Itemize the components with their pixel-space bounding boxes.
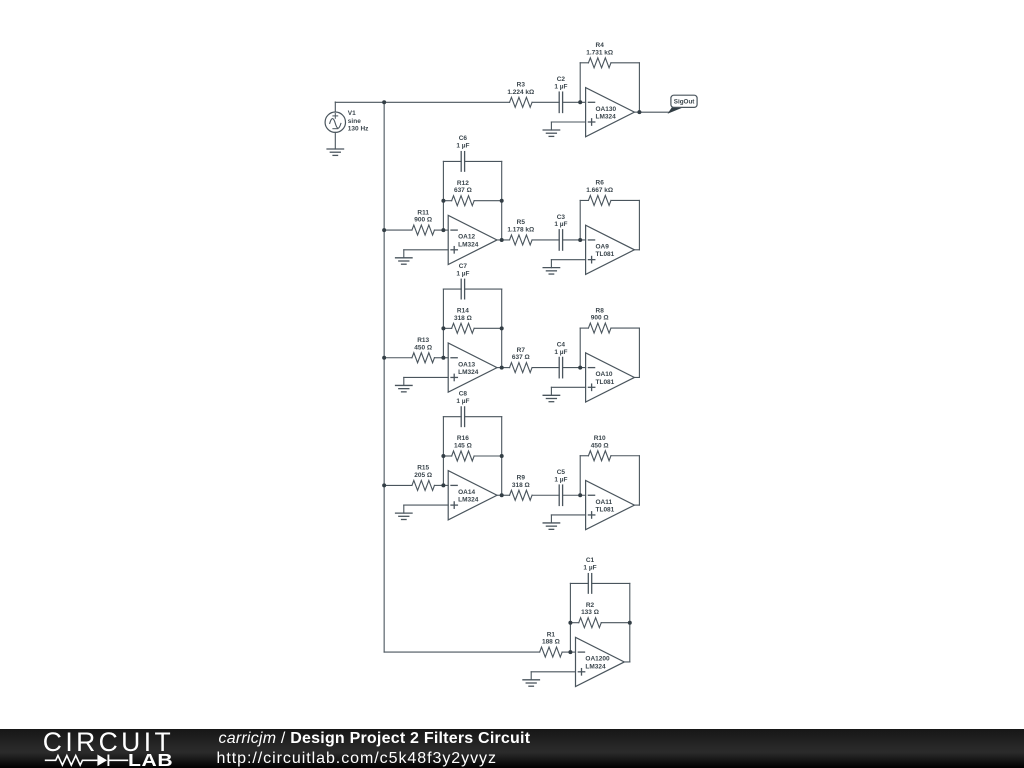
svg-text:R10: R10 <box>594 435 606 442</box>
svg-text:1.667 kΩ: 1.667 kΩ <box>586 187 613 194</box>
svg-text:637 Ω: 637 Ω <box>454 187 472 194</box>
svg-text:R2: R2 <box>586 602 595 609</box>
svg-text:OA130: OA130 <box>596 106 617 113</box>
svg-text:C2: C2 <box>557 76 566 83</box>
svg-text:R6: R6 <box>596 180 605 187</box>
svg-text:C3: C3 <box>557 214 566 221</box>
svg-text:R13: R13 <box>417 337 429 344</box>
svg-text:TL081: TL081 <box>596 251 615 258</box>
svg-text:900 Ω: 900 Ω <box>414 217 432 224</box>
svg-text:1 µF: 1 µF <box>583 565 596 572</box>
svg-text:R12: R12 <box>457 180 469 187</box>
svg-text:318 Ω: 318 Ω <box>512 482 530 489</box>
svg-text:C4: C4 <box>557 341 566 348</box>
svg-text:1 µF: 1 µF <box>554 84 567 91</box>
svg-text:1 µF: 1 µF <box>456 398 469 405</box>
svg-text:1 µF: 1 µF <box>554 221 567 228</box>
svg-text:R16: R16 <box>457 435 469 442</box>
svg-text:V1: V1 <box>348 110 356 117</box>
svg-text:OA10: OA10 <box>596 371 613 378</box>
svg-text:205 Ω: 205 Ω <box>414 472 432 479</box>
svg-text:C8: C8 <box>459 391 468 398</box>
svg-text:TL081: TL081 <box>596 379 615 386</box>
svg-text:R4: R4 <box>596 42 605 49</box>
svg-text:R11: R11 <box>417 209 429 216</box>
svg-text:R5: R5 <box>517 219 526 226</box>
svg-text:LM324: LM324 <box>585 663 606 670</box>
svg-text:R14: R14 <box>457 308 469 315</box>
svg-text:OA1200: OA1200 <box>585 656 610 663</box>
svg-text:OA14: OA14 <box>458 489 475 496</box>
svg-text:R8: R8 <box>596 307 605 314</box>
svg-text:133 Ω: 133 Ω <box>581 609 599 616</box>
svg-text:145 Ω: 145 Ω <box>454 443 472 450</box>
svg-text:188 Ω: 188 Ω <box>542 639 560 646</box>
svg-text:LM324: LM324 <box>458 497 479 504</box>
svg-text:TL081: TL081 <box>596 507 615 514</box>
svg-text:C7: C7 <box>459 263 468 270</box>
svg-text:1.731 kΩ: 1.731 kΩ <box>586 49 613 56</box>
svg-text:R3: R3 <box>517 82 526 89</box>
svg-text:1 µF: 1 µF <box>456 143 469 150</box>
svg-text:R1: R1 <box>547 631 556 638</box>
svg-text:OA13: OA13 <box>458 361 475 368</box>
svg-text:450 Ω: 450 Ω <box>414 344 432 351</box>
svg-text:C5: C5 <box>557 469 566 476</box>
svg-text:R7: R7 <box>517 347 526 354</box>
svg-text:1 µF: 1 µF <box>554 476 567 483</box>
svg-text:OA9: OA9 <box>596 244 610 251</box>
svg-text:1 µF: 1 µF <box>554 349 567 356</box>
svg-text:1 µF: 1 µF <box>456 270 469 277</box>
svg-text:LM324: LM324 <box>596 114 617 121</box>
svg-text:637 Ω: 637 Ω <box>512 354 530 361</box>
svg-text:C6: C6 <box>459 135 468 142</box>
svg-text:sine: sine <box>348 118 361 125</box>
svg-text:450 Ω: 450 Ω <box>591 442 609 449</box>
svg-text:LM324: LM324 <box>458 369 479 376</box>
svg-text:C1: C1 <box>586 557 595 564</box>
svg-text:R9: R9 <box>517 474 526 481</box>
svg-text:LM324: LM324 <box>458 241 479 248</box>
svg-text:900 Ω: 900 Ω <box>591 315 609 322</box>
svg-text:130 Hz: 130 Hz <box>348 126 369 133</box>
svg-text:OA12: OA12 <box>458 234 475 241</box>
svg-text:1.178 kΩ: 1.178 kΩ <box>507 226 534 233</box>
svg-text:318 Ω: 318 Ω <box>454 315 472 322</box>
svg-text:R15: R15 <box>417 465 429 472</box>
svg-text:1.224 kΩ: 1.224 kΩ <box>507 89 534 96</box>
svg-text:OA11: OA11 <box>596 499 613 506</box>
svg-text:SigOut: SigOut <box>674 99 696 106</box>
